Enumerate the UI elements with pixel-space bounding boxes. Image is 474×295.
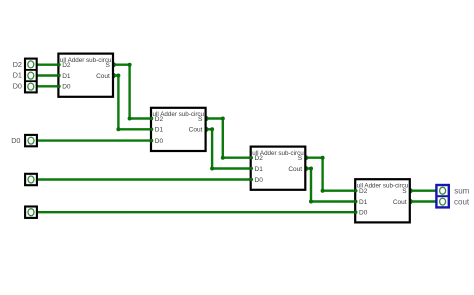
svg-text:D1: D1 bbox=[13, 71, 22, 80]
wire input pin4 to U4.D0 bbox=[34, 211, 356, 213]
wire input D1 to U1.D1 bbox=[34, 74, 59, 76]
junction U3.Cout bend bottom bbox=[309, 200, 313, 204]
svg-text:D1: D1 bbox=[255, 166, 264, 173]
full-adder sub-circuit U3 bbox=[250, 147, 306, 190]
junction U1 pin Cout bbox=[111, 73, 116, 78]
svg-text:D2: D2 bbox=[13, 60, 22, 69]
svg-text:D0: D0 bbox=[359, 210, 368, 217]
wire U1.Cout to U2.D1 bbox=[113, 76, 151, 130]
wire input D2 to U1.D2 bbox=[34, 63, 59, 65]
junction U1.S bend top bbox=[128, 63, 132, 67]
wire U4.Cout to cout pin bbox=[410, 200, 437, 202]
svg-text:cout: cout bbox=[454, 197, 470, 206]
wire input D0b to U2.D0 bbox=[34, 139, 152, 141]
junction wire end at cout pin bbox=[435, 199, 439, 203]
full-adder sub-circuit U2 bbox=[150, 108, 206, 151]
svg-text:Cout: Cout bbox=[189, 127, 203, 134]
svg-text:Cout: Cout bbox=[393, 199, 407, 206]
svg-text:Cout: Cout bbox=[288, 166, 302, 173]
svg-text:D1: D1 bbox=[155, 127, 164, 134]
wire U2.S to U3.D2 bbox=[206, 119, 251, 158]
svg-text:D0: D0 bbox=[13, 82, 22, 91]
svg-text:Cout: Cout bbox=[96, 73, 110, 80]
junction U3 pin S bbox=[303, 155, 308, 160]
svg-text:D2: D2 bbox=[155, 116, 164, 123]
junction U3.Cout bend top bbox=[309, 167, 313, 171]
junction U3.S bend bottom bbox=[321, 189, 325, 193]
svg-text:D2: D2 bbox=[359, 188, 368, 195]
svg-text:S: S bbox=[105, 62, 110, 69]
junction U1 pin S bbox=[111, 62, 116, 67]
wire input pin3 to U3.D0 bbox=[34, 178, 251, 180]
junction U3 pin Cout bbox=[303, 166, 308, 171]
full-adder sub-circuit U1 bbox=[57, 54, 113, 97]
junction U2.Cout bend top bbox=[210, 127, 214, 131]
svg-text:D0: D0 bbox=[11, 136, 20, 145]
svg-text:sum: sum bbox=[454, 186, 469, 195]
junction U1.Cout bend bottom bbox=[116, 127, 120, 131]
svg-text:D2: D2 bbox=[62, 62, 71, 69]
input pin unlabeled 3 bbox=[25, 174, 37, 185]
wire U3.Cout to U4.D1 bbox=[305, 169, 355, 202]
svg-text:D2: D2 bbox=[255, 155, 264, 162]
svg-text:D0: D0 bbox=[62, 84, 71, 91]
junction U2 pin Cout bbox=[203, 127, 208, 132]
svg-text:S: S bbox=[298, 155, 303, 162]
junction U3.S bend top bbox=[321, 156, 325, 160]
junction U2.S bend top bbox=[221, 117, 225, 121]
input pin unlabeled 4 bbox=[25, 207, 37, 218]
junction U1.S bend bottom bbox=[128, 117, 132, 121]
output pin stack sum/cout bbox=[436, 185, 448, 207]
wire U4.S to sum pin bbox=[410, 189, 437, 191]
junction U2.S bend bottom bbox=[221, 156, 225, 160]
svg-text:D0: D0 bbox=[255, 177, 264, 184]
junction wire end at sum pin bbox=[435, 189, 439, 193]
junction U2.Cout bend bottom bbox=[210, 167, 214, 171]
junction U4 pin Cout bbox=[408, 199, 413, 204]
input pin D0b bbox=[25, 135, 37, 146]
junction U1.Cout bend top bbox=[116, 74, 120, 78]
junction U4 pin S bbox=[408, 188, 413, 193]
input pin stack D2/D1/D0 bbox=[25, 59, 37, 93]
junction U2 pin S bbox=[203, 116, 208, 121]
full-adder sub-circuit U4 bbox=[354, 179, 410, 222]
svg-text:D1: D1 bbox=[359, 199, 368, 206]
wire U1.S to U2.D2 bbox=[113, 65, 151, 119]
svg-text:S: S bbox=[198, 116, 203, 123]
wire U2.Cout to U3.D1 bbox=[206, 129, 251, 168]
wire input D0 to U1.D0 bbox=[34, 85, 59, 87]
svg-text:D1: D1 bbox=[62, 73, 71, 80]
svg-text:S: S bbox=[402, 188, 407, 195]
wire U3.S to U4.D2 bbox=[305, 158, 355, 191]
svg-text:D0: D0 bbox=[155, 138, 164, 145]
